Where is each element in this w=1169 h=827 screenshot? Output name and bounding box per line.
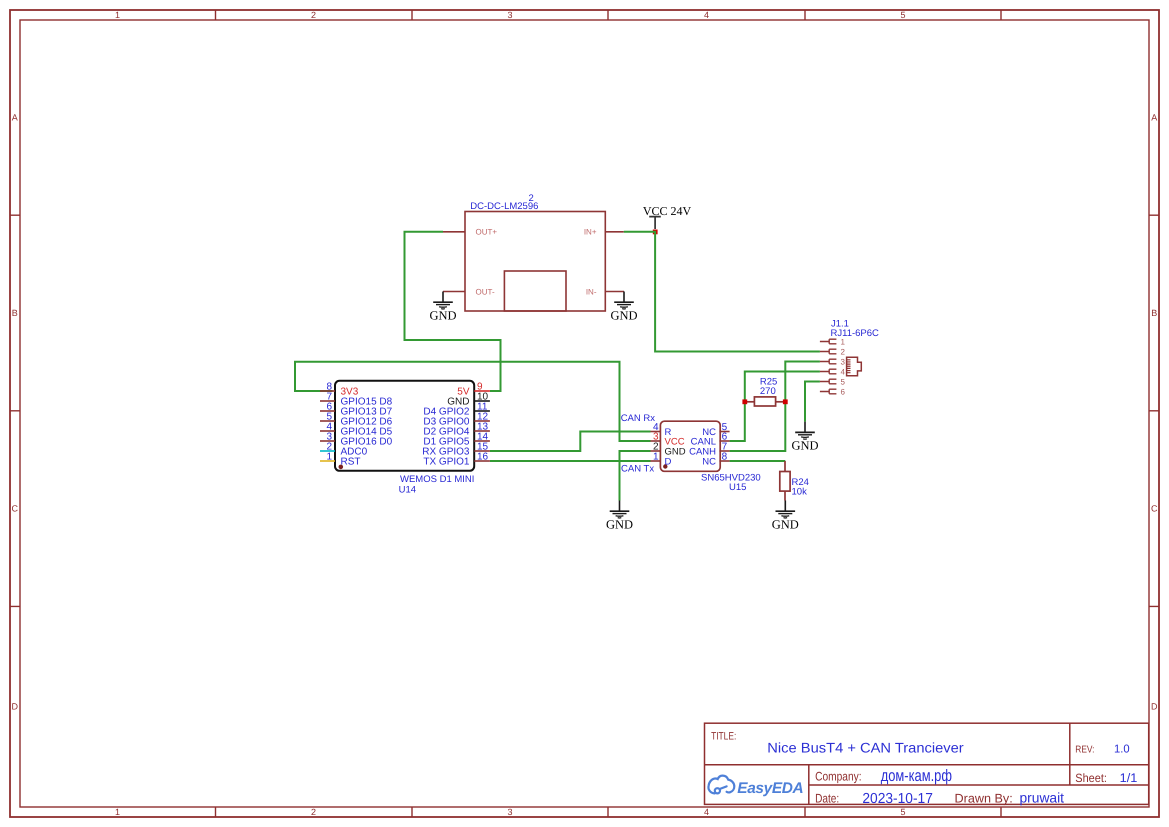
svg-text:OUT-: OUT- (476, 287, 495, 296)
svg-text:10k: 10k (792, 487, 808, 498)
U14 left pin numbers (326, 382, 332, 463)
svg-text:дом-кам.рф: дом-кам.рф (881, 767, 952, 785)
wire VCC 24V to RJ11 pin2 (624, 232, 820, 352)
title block (705, 723, 1149, 804)
svg-text:Drawn By:: Drawn By: (955, 792, 1013, 806)
J1.1 pin 3 (820, 359, 837, 364)
U14 left pin names (341, 386, 393, 467)
svg-text:DC-DC-LM2596: DC-DC-LM2596 (470, 201, 538, 212)
svg-text:A: A (1151, 113, 1157, 123)
svg-text:1.0: 1.0 (1114, 743, 1130, 755)
wire CANH to RJ11 pin3 (730, 362, 820, 452)
svg-text:GND: GND (429, 308, 456, 322)
svg-text:C: C (1151, 504, 1158, 514)
ground GND (under RJ11 pin5) (791, 422, 818, 453)
svg-text:4: 4 (704, 10, 709, 20)
U14 right pin names (422, 386, 470, 467)
ground GND (SN65 pin2 net) (606, 501, 633, 532)
power flag VCC 24V (643, 204, 692, 234)
svg-text:2: 2 (311, 807, 316, 817)
svg-text:B: B (1151, 308, 1157, 318)
svg-text:2: 2 (841, 348, 846, 357)
U14 right pin lines (474, 391, 490, 461)
wire SN65 pin8 to R24 (730, 460, 786, 462)
U15 right pin names (689, 427, 716, 468)
U14 right pin numbers (477, 382, 489, 463)
svg-text:1: 1 (326, 452, 332, 463)
pin IN+ (584, 228, 624, 237)
pin IN- (586, 287, 624, 296)
svg-text:U15: U15 (729, 482, 746, 493)
wire 3V3 to VCC pin (295, 362, 651, 441)
pin OUT+ (443, 228, 497, 237)
U15 left pin names (665, 427, 686, 468)
wire RJ11 pin5 to ground (805, 382, 820, 422)
svg-text:5: 5 (900, 807, 905, 817)
svg-text:EasyEDA: EasyEDA (737, 780, 803, 797)
U14 left pin lines (320, 391, 335, 461)
svg-text:8: 8 (722, 452, 728, 463)
svg-text:C: C (12, 504, 19, 514)
J1.1 pin 4 (820, 369, 837, 374)
svg-text:D: D (665, 456, 672, 467)
svg-text:NC: NC (702, 456, 716, 467)
U15 left pin numbers (653, 422, 659, 463)
J1.1 pin 1 (820, 339, 837, 344)
svg-text:5: 5 (841, 378, 846, 387)
pin OUT- (443, 287, 495, 296)
ground GND (under IN-) (610, 292, 637, 323)
module 2 DC-DC-LM2596 (465, 193, 605, 311)
svg-text:IN-: IN- (586, 287, 597, 296)
svg-text:1: 1 (841, 338, 846, 347)
svg-text:5: 5 (900, 10, 905, 20)
svg-text:TX GPIO1: TX GPIO1 (423, 456, 470, 467)
junction (R25 right) (783, 399, 788, 404)
svg-text:Sheet:: Sheet: (1075, 771, 1107, 785)
svg-text:D: D (1151, 702, 1158, 712)
svg-text:REV:: REV: (1075, 744, 1094, 755)
J1.1 jack body (847, 357, 862, 376)
svg-text:U14: U14 (399, 484, 416, 495)
wire CANL to RJ11 pin4 (730, 372, 820, 442)
svg-text:1/1: 1/1 (1120, 771, 1138, 785)
svg-text:IN+: IN+ (584, 228, 597, 237)
svg-text:270: 270 (760, 386, 776, 397)
svg-text:TITLE:: TITLE: (711, 731, 736, 743)
svg-text:1: 1 (115, 10, 120, 20)
connector J1.1 RJ11-6P6C (831, 319, 880, 340)
svg-text:Company:: Company: (815, 769, 862, 783)
U15 left pin lines (651, 432, 661, 462)
IC U15 SN65HVD230 (660, 421, 760, 493)
svg-text:CAN Tx: CAN Tx (621, 463, 654, 474)
svg-text:6: 6 (841, 388, 846, 397)
svg-text:pruwait: pruwait (1020, 789, 1065, 805)
svg-text:A: A (12, 113, 18, 123)
svg-text:3: 3 (841, 358, 846, 367)
resistor R25 270 (745, 377, 786, 407)
wire CAN Rx (490, 432, 651, 452)
svg-text:2023-10-17: 2023-10-17 (862, 791, 933, 807)
J1.1 pin 6 (820, 389, 837, 394)
svg-text:Nice BusT4 + CAN Tranciever: Nice BusT4 + CAN Tranciever (767, 739, 964, 755)
ground GND (under OUT-) (429, 292, 456, 323)
svg-text:3: 3 (507, 10, 512, 20)
svg-text:4: 4 (704, 807, 709, 817)
svg-text:CAN Rx: CAN Rx (621, 413, 656, 424)
svg-text:Date:: Date: (815, 792, 839, 806)
svg-text:RST: RST (341, 456, 361, 467)
svg-text:1: 1 (115, 807, 120, 817)
svg-text:3: 3 (507, 807, 512, 817)
svg-text:2: 2 (311, 10, 316, 20)
wire SN65 GND to ground (620, 451, 651, 501)
junction (R25 left) (742, 399, 747, 404)
svg-text:4: 4 (841, 368, 846, 377)
svg-text:1: 1 (653, 452, 659, 463)
wire OUT+ to 5V (405, 232, 501, 391)
ground GND (under R24) (772, 501, 799, 532)
svg-text:B: B (12, 308, 18, 318)
J1.1 pin 5 (820, 379, 837, 384)
svg-text:16: 16 (477, 452, 489, 463)
svg-text:D: D (12, 702, 19, 712)
U15 right pin lines (719, 432, 729, 462)
EasyEDA logo (708, 776, 803, 797)
J1.1 pin 2 (820, 349, 837, 354)
svg-text:OUT+: OUT+ (476, 228, 498, 237)
wire CAN Tx (490, 460, 651, 462)
MCU U14 WEMOS D1 MINI (335, 381, 474, 496)
svg-text:RJ11-6P6C: RJ11-6P6C (831, 328, 880, 339)
resistor R24 10k (780, 461, 809, 501)
U15 right pin numbers (722, 422, 728, 463)
